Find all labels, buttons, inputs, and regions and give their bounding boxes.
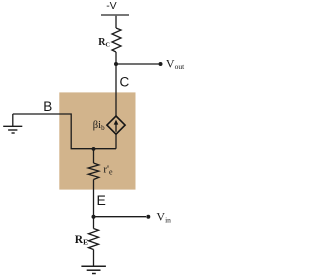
svg-text:B: B [43,99,52,114]
wire supply bar to RC [115,16,117,28]
wire B from ground to box, down, and across to diamond [13,114,116,149]
resistor RC [112,28,121,52]
svg-text:C: C [120,74,130,89]
wire to Vout terminal [116,63,159,65]
current source arrow [115,124,117,132]
svg-text:E: E [97,192,106,208]
ground (emitter) bars [81,265,106,267]
wire diamond bottom to node [115,134,117,149]
junction dot r'e top [92,147,96,151]
resistor r'e [88,163,99,180]
terminal dot Vout [159,62,163,66]
ground (base) stub [12,114,14,126]
ground (base) bars [3,125,22,127]
resistor RE [89,229,99,250]
svg-text:-V: -V [106,0,117,12]
junction dot Vout [114,62,118,66]
supply rail bar [101,14,129,16]
terminal dot Vin [146,215,150,219]
wire RC to C node [115,52,117,117]
wire to Vin terminal [94,216,147,218]
junction dot Vin [92,215,96,219]
wire r'e to E node and down to RE [93,180,95,229]
wire RE to ground [93,250,95,267]
dependent current source diamond [107,116,125,134]
wire node to r'e [93,149,95,163]
shaded transistor-model box [59,92,135,189]
